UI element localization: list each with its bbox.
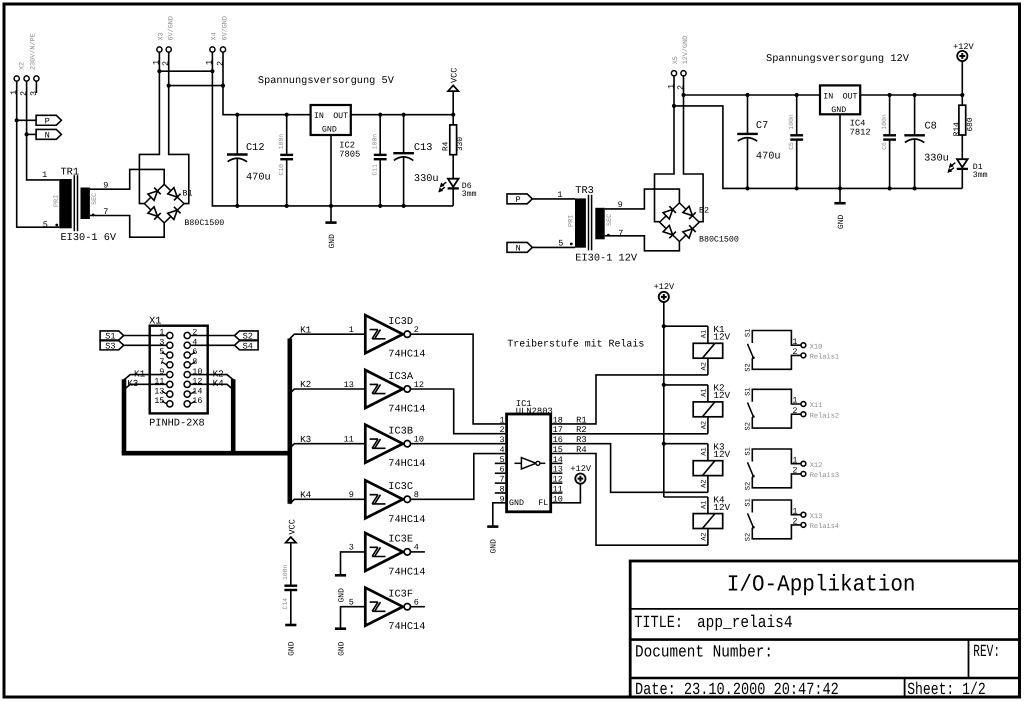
- svg-text:GND: GND: [288, 641, 297, 656]
- connector X5 pin 1: [671, 71, 676, 76]
- wire N to TR3.5: [532, 246, 575, 248]
- svg-text:7: 7: [159, 357, 164, 367]
- ground IC4: [834, 202, 845, 205]
- connector X3 pin 2: [166, 47, 171, 52]
- X1 pad pin 13: [167, 391, 173, 397]
- svg-text:IC3B: IC3B: [388, 426, 413, 438]
- svg-text:IN: IN: [823, 93, 833, 102]
- svg-text:C12: C12: [246, 142, 265, 154]
- svg-text:470u: 470u: [246, 172, 271, 184]
- bridge rectifier B1: [144, 184, 184, 223]
- wire to N flag: [27, 133, 36, 135]
- svg-text:C6: C6: [881, 142, 888, 150]
- svg-text:230V/N/PE: 230V/N/PE: [29, 33, 37, 70]
- wire X1.2 to S2: [190, 335, 234, 337]
- svg-text:1: 1: [349, 325, 354, 335]
- node C7 bottom: [745, 186, 749, 190]
- relay contact S K1: [748, 331, 802, 370]
- svg-text:A2: A2: [700, 362, 708, 370]
- wire IC2 OUT rail: [351, 114, 453, 116]
- svg-text:S4: S4: [243, 341, 253, 351]
- connector X5 pin 2: [681, 71, 686, 76]
- svg-text:S3: S3: [105, 341, 115, 351]
- IC1 pin 8 stub: [495, 492, 507, 494]
- wire net X3.2/X4.2: [168, 52, 170, 86]
- svg-text:74HC14: 74HC14: [388, 566, 425, 578]
- IC1 pin 6 stub: [495, 472, 507, 474]
- svg-text:A1: A1: [700, 447, 708, 455]
- svg-text:Sheet: 1/2: Sheet: 1/2: [907, 681, 986, 700]
- svg-text:X11: X11: [810, 402, 823, 410]
- inverter IC3E: [365, 533, 403, 571]
- inverter IC3D: [365, 315, 403, 353]
- inverter IC3C: [365, 480, 403, 518]
- svg-text:470u: 470u: [756, 150, 781, 162]
- wire to P flag: [17, 119, 36, 121]
- node IC4 GND on rail: [838, 186, 842, 190]
- svg-text:74HC14: 74HC14: [388, 349, 425, 361]
- node X5.2 on rail: [681, 93, 685, 97]
- wire X3.1 to bridge B1 minus: [139, 71, 159, 203]
- X1 pad pin 8: [184, 362, 190, 368]
- flag S1: [100, 331, 124, 340]
- connector X13 pin 1: [801, 512, 806, 517]
- connector X4 pin 2: [220, 47, 225, 52]
- connector X3 pin 1: [157, 47, 162, 52]
- capacitor C5: [796, 95, 798, 135]
- node N junction: [25, 132, 29, 136]
- X1 pad pin 10: [184, 371, 190, 377]
- svg-text:IC3D: IC3D: [388, 316, 413, 328]
- inverter IC3A: [365, 370, 403, 408]
- svg-text:3mm: 3mm: [973, 171, 988, 180]
- flag N: [36, 129, 61, 139]
- svg-text:GND: GND: [831, 106, 846, 115]
- connector X10 pin 2: [801, 353, 806, 358]
- flag N TR3: [507, 242, 532, 252]
- title block frame: [630, 561, 1019, 697]
- wire IC3E input to ground: [341, 552, 366, 575]
- svg-text:IC3E: IC3E: [388, 534, 413, 546]
- node K1 A1 on +12V rail: [662, 324, 666, 328]
- svg-text:Spannungsversorgung 5V: Spannungsversorgung 5V: [258, 75, 395, 87]
- svg-text:I/O-Applikation: I/O-Applikation: [727, 572, 916, 598]
- wire net AC- X3.1/X4.1: [158, 52, 160, 71]
- svg-text:X5: X5: [672, 56, 680, 64]
- connector X10 pin 1: [801, 343, 806, 348]
- X1 pad pin 12: [184, 381, 190, 387]
- svg-text:A1: A1: [700, 388, 708, 396]
- svg-text:100n: 100n: [278, 134, 285, 150]
- svg-text:REV:: REV:: [973, 643, 1000, 662]
- connector X12 pin 1: [801, 461, 806, 466]
- svg-text:1: 1: [557, 190, 562, 200]
- svg-text:330u: 330u: [414, 173, 439, 185]
- svg-text:K3: K3: [127, 378, 138, 389]
- svg-text:13: 13: [344, 380, 354, 390]
- relay coil K2: [664, 384, 708, 386]
- svg-text:4: 4: [499, 445, 504, 455]
- svg-text:5: 5: [43, 220, 48, 230]
- wire TR3.9 to bridge B2 AC1: [605, 189, 680, 209]
- svg-text:EI30-1 6V: EI30-1 6V: [61, 232, 117, 244]
- svg-text:S1: S1: [745, 447, 753, 455]
- svg-text:TR1: TR1: [61, 166, 80, 178]
- wire X2.2 to N and TR1 pin 1: [27, 81, 60, 180]
- svg-text:SEC: SEC: [91, 193, 99, 205]
- svg-text:C5: C5: [788, 142, 795, 150]
- node C11 bottom: [378, 204, 382, 208]
- svg-text:C10: C10: [278, 164, 285, 176]
- bus main vertical: [287, 339, 292, 504]
- svg-text:1: 1: [792, 337, 797, 347]
- relay contact S K2: [748, 389, 802, 428]
- flag S4: [235, 341, 259, 350]
- svg-text:12V: 12V: [713, 449, 730, 460]
- X1 pad pin 16: [184, 401, 190, 407]
- ground IC1: [487, 525, 498, 528]
- voltage regulator IC2 7805: [311, 105, 351, 135]
- svg-text:74HC14: 74HC14: [388, 458, 425, 470]
- wire X1.4 to S4: [190, 344, 234, 346]
- svg-text:X13: X13: [810, 513, 823, 521]
- wire R2 IC1.17 to K2.A2: [551, 433, 708, 435]
- wire X5.1 down to bridge B2 minus: [655, 76, 675, 222]
- flag S2: [235, 331, 259, 340]
- svg-text:5: 5: [558, 238, 563, 248]
- svg-text:X3: X3: [157, 32, 165, 40]
- wire IC2 GND down: [330, 135, 332, 222]
- flag P: [36, 115, 61, 125]
- node C5 top: [795, 93, 799, 97]
- svg-text:X12: X12: [810, 462, 823, 470]
- wire X1.12 to bus: [190, 384, 233, 389]
- wire +12V rail: [684, 94, 963, 96]
- svg-text:Relais1: Relais1: [810, 353, 839, 362]
- svg-text:1: 1: [42, 170, 47, 180]
- svg-text:7812: 7812: [850, 128, 871, 138]
- svg-text:GND: GND: [509, 499, 524, 508]
- svg-text:R4: R4: [441, 141, 450, 151]
- svg-text:P: P: [45, 116, 50, 126]
- svg-text:X4: X4: [210, 32, 218, 40]
- svg-text:74HC14: 74HC14: [388, 621, 425, 633]
- bridge rectifier B2: [660, 203, 700, 242]
- ground IC3F input: [335, 627, 346, 630]
- X1 pad pin 3: [167, 342, 173, 348]
- svg-text:EI30-1 12V: EI30-1 12V: [575, 252, 638, 264]
- IC1 pin 5 stub: [495, 462, 507, 464]
- wire IC3F input to ground: [341, 607, 366, 629]
- svg-text:6V/GND: 6V/GND: [167, 16, 175, 40]
- svg-text:B80C1500: B80C1500: [184, 219, 224, 228]
- wire bus to IC3D input: [290, 334, 366, 339]
- svg-text:S1: S1: [745, 387, 753, 395]
- wire X5.2 to +12V rail and bridge B2 plus: [684, 76, 704, 222]
- svg-text:7: 7: [618, 228, 623, 238]
- svg-text:12V: 12V: [713, 502, 730, 513]
- svg-text:N: N: [45, 131, 50, 141]
- svg-text:FL: FL: [538, 499, 548, 508]
- svg-text:K4: K4: [213, 378, 225, 389]
- svg-text:Relais4: Relais4: [810, 522, 839, 531]
- svg-text:1: 1: [499, 415, 504, 425]
- wire IC3E output stub: [411, 551, 425, 553]
- svg-text:B2: B2: [699, 206, 709, 215]
- capacitor C11: [379, 115, 381, 155]
- svg-text:74HC14: 74HC14: [388, 514, 425, 526]
- svg-text:C13: C13: [414, 142, 433, 154]
- wire TR1.7 to bridge B1 AC2: [90, 216, 164, 238]
- svg-text:K3: K3: [300, 434, 311, 445]
- connector X4 pin 1: [210, 47, 215, 52]
- wire IC3A out to IC1.2: [411, 389, 507, 434]
- svg-text:IC3C: IC3C: [388, 481, 413, 493]
- svg-text:C8: C8: [925, 121, 937, 133]
- svg-text:100n: 100n: [881, 114, 888, 130]
- X1 pin 6 stub: [190, 352, 195, 355]
- node C12 bottom: [235, 204, 239, 208]
- wire TR1.9 to bridge B1 AC1: [90, 169, 164, 189]
- svg-text:A1: A1: [700, 501, 708, 509]
- wire IC3F output stub: [411, 606, 425, 608]
- svg-text:2: 2: [19, 91, 29, 96]
- svg-text:GND: GND: [837, 214, 846, 229]
- svg-text:S2: S2: [745, 422, 753, 430]
- node C13 top: [402, 113, 406, 117]
- IC1 pin 11 stub: [551, 492, 563, 494]
- svg-text:S2: S2: [745, 482, 753, 490]
- svg-text:GND: GND: [337, 588, 346, 603]
- node X4.2: [221, 84, 225, 88]
- svg-text:X1: X1: [149, 316, 161, 328]
- svg-text:IC3A: IC3A: [388, 371, 414, 383]
- svg-text:Document Number:: Document Number:: [635, 643, 773, 662]
- svg-text:P: P: [516, 195, 521, 205]
- wire +12V relay rail: [663, 302, 665, 497]
- node R14 top: [960, 93, 964, 97]
- svg-text:R14: R14: [953, 122, 962, 136]
- svg-text:IC3F: IC3F: [388, 589, 413, 601]
- wire D1 to GND rail: [961, 169, 963, 189]
- wire D6 to GND rail: [452, 188, 454, 206]
- wire bus to IC3A input: [290, 389, 366, 394]
- svg-text:GND: GND: [490, 539, 499, 554]
- svg-text:K1: K1: [300, 324, 312, 335]
- X1 pad pin 5: [167, 352, 173, 358]
- svg-text:2: 2: [792, 517, 797, 527]
- node X4.1: [210, 69, 214, 73]
- capacitor C12: [236, 115, 238, 155]
- svg-text:GND: GND: [322, 126, 337, 135]
- node C5 bottom: [795, 186, 799, 190]
- svg-text:B80C1500: B80C1500: [699, 235, 739, 244]
- svg-text:330: 330: [456, 137, 465, 151]
- svg-text:1: 1: [9, 90, 19, 95]
- TR1 winding dots: [55, 224, 58, 227]
- bus bottom horizontal: [122, 451, 290, 456]
- wire IC1.10 to +12V: [551, 483, 581, 503]
- bus right inner vertical: [231, 379, 236, 453]
- svg-text:100n: 100n: [372, 134, 379, 150]
- wire X1.11 to bus: [124, 384, 167, 389]
- svg-text:12V/GND: 12V/GND: [682, 36, 690, 65]
- IC1 pin 14 stub: [551, 462, 563, 464]
- svg-text:GND: GND: [328, 234, 337, 249]
- connector X1 PINHD-2X8: [150, 326, 208, 414]
- X1 pad pin 1: [167, 332, 173, 338]
- wire R14 to D1: [961, 135, 963, 159]
- X1 pin 15 stub: [162, 401, 167, 404]
- node C13 bottom: [402, 204, 406, 208]
- wire X3.2 to bridge B1 plus: [169, 86, 189, 204]
- relay contact S K4: [748, 500, 802, 539]
- svg-text:3: 3: [29, 91, 39, 96]
- bus left vertical: [122, 379, 127, 453]
- flag P TR3: [507, 194, 532, 204]
- wire R1 IC1.18 to K1.A2: [551, 375, 708, 424]
- wire VCC to rail: [452, 91, 454, 115]
- svg-text:Spannungsversorgung 12V: Spannungsversorgung 12V: [766, 53, 910, 65]
- svg-text:PINHD-2X8: PINHD-2X8: [149, 417, 205, 429]
- svg-text:+12V: +12V: [654, 282, 675, 292]
- IC1 pin 12 stub: [551, 482, 563, 484]
- relay coil K3: [664, 443, 708, 445]
- X1 pin 5 stub: [162, 352, 167, 355]
- svg-text:K2: K2: [300, 379, 311, 390]
- svg-text:12V: 12V: [713, 390, 730, 401]
- svg-text:12V: 12V: [713, 331, 730, 342]
- node C8 bottom: [913, 186, 917, 190]
- connector X12 pin 2: [801, 472, 806, 477]
- svg-text:S1: S1: [745, 498, 753, 506]
- wire X2.1 to P and TR1 pin 5: [17, 81, 60, 227]
- node X5.1 branch: [672, 104, 676, 108]
- node C6 top: [888, 93, 892, 97]
- ground IC2: [325, 221, 336, 224]
- relay coil K1: [664, 325, 708, 327]
- svg-text:2: 2: [792, 466, 797, 476]
- X1 pad pin 9: [167, 371, 173, 377]
- connector X11 pin 2: [801, 412, 806, 417]
- wire S1 to X1.1: [124, 335, 167, 337]
- connector X2 pin 1: [14, 76, 19, 81]
- wire IC1.9 to ground: [493, 503, 507, 526]
- svg-text:Relais2: Relais2: [810, 411, 839, 420]
- capacitor C14: [290, 543, 292, 586]
- ground C14: [285, 624, 296, 627]
- svg-text:Date: 23.10.2000 20:47:42: Date: 23.10.2000 20:47:42: [635, 681, 839, 700]
- node X3.2: [167, 84, 171, 88]
- svg-text:ULN2803: ULN2803: [516, 406, 553, 416]
- X1 pin 13 stub: [162, 391, 167, 394]
- wire X2.3 stub: [35, 81, 37, 93]
- supply VCC at C14: [286, 537, 296, 543]
- svg-text:VCC: VCC: [450, 68, 460, 83]
- inverter IC3B: [365, 425, 403, 463]
- svg-text:Relais3: Relais3: [810, 471, 839, 480]
- X1 pad pin 4: [184, 342, 190, 348]
- svg-text:2: 2: [792, 406, 797, 416]
- svg-text:C7: C7: [756, 120, 768, 132]
- svg-text:3mm: 3mm: [462, 190, 477, 199]
- wire R3 IC1.16 to K3.A2: [551, 444, 708, 493]
- flag S3: [100, 341, 124, 350]
- svg-text:330u: 330u: [924, 153, 949, 165]
- svg-text:680: 680: [966, 117, 975, 131]
- svg-text:9: 9: [349, 490, 354, 500]
- LED D6: [448, 179, 459, 187]
- svg-text:PRI: PRI: [53, 195, 61, 207]
- IC1 pin 7 stub: [495, 482, 507, 484]
- svg-text:PRI: PRI: [567, 215, 575, 227]
- wire TR3.7 to bridge B2 AC2: [605, 236, 680, 251]
- wire IC3D out to IC1.1: [411, 334, 507, 424]
- relay contact S K3: [748, 449, 802, 488]
- X1 pad pin 6: [184, 352, 190, 358]
- svg-text:S2: S2: [745, 533, 753, 541]
- capacitor C10: [286, 115, 288, 155]
- svg-text:74HC14: 74HC14: [388, 404, 425, 416]
- wire X1.10 to bus: [190, 375, 233, 380]
- wire R4 IC1.15 to K4.A2: [551, 454, 708, 546]
- svg-text:C11: C11: [372, 164, 379, 176]
- svg-text:X2: X2: [18, 62, 26, 70]
- wire +12V to rail: [961, 61, 963, 95]
- svg-text:GND: GND: [337, 641, 346, 656]
- connector X11 pin 1: [801, 402, 806, 407]
- supply VCC arrow: [448, 85, 458, 91]
- svg-text:1: 1: [792, 506, 797, 516]
- wire X4.2 to +5V input rail: [223, 86, 311, 115]
- svg-text:B1: B1: [183, 189, 193, 198]
- svg-text:3: 3: [499, 435, 504, 445]
- node K2 A1 on +12V rail: [662, 383, 666, 387]
- X1 pad pin 11: [167, 381, 173, 387]
- svg-text:5: 5: [159, 347, 164, 357]
- resistor R14: [961, 95, 963, 105]
- node IC2 GND on rail: [329, 204, 333, 208]
- node C11 top: [378, 113, 382, 117]
- svg-text:C14: C14: [282, 598, 289, 610]
- X1 pad pin 7: [167, 362, 173, 368]
- node C6 bottom: [888, 186, 892, 190]
- svg-text:app_relais4: app_relais4: [697, 614, 793, 633]
- X1 pin 8 stub: [190, 362, 195, 365]
- wire bus to IC3C input: [290, 499, 366, 504]
- svg-text:A2: A2: [700, 421, 708, 429]
- svg-text:K4: K4: [300, 489, 312, 500]
- svg-text:OUT: OUT: [333, 112, 348, 121]
- svg-text:Treiberstufe mit Relais: Treiberstufe mit Relais: [507, 338, 644, 350]
- wire bus to IC3B input: [290, 444, 366, 449]
- svg-text:+12V: +12V: [570, 464, 591, 474]
- wire IC3C out to IC1.4: [411, 454, 507, 500]
- capacitor C8: [914, 95, 916, 135]
- node R4 top: [451, 113, 455, 117]
- svg-text:1: 1: [792, 396, 797, 406]
- wire X1.9 to bus: [124, 375, 167, 380]
- wire X4.1 down to GND rail: [212, 71, 453, 206]
- svg-text:S2: S2: [745, 363, 753, 371]
- ground IC3E input: [335, 574, 346, 577]
- svg-text:OUT: OUT: [843, 93, 858, 102]
- relay coil K4: [664, 496, 708, 498]
- svg-text:SEC: SEC: [606, 214, 614, 226]
- X1 pin 16 stub: [190, 401, 195, 404]
- svg-text:2: 2: [792, 347, 797, 357]
- svg-text:100n: 100n: [282, 564, 289, 580]
